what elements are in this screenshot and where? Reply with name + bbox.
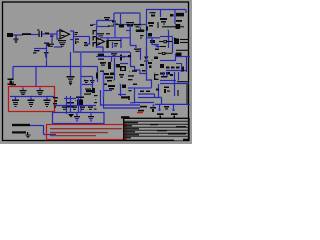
op-amp U1: [60, 30, 70, 39]
wire: [161, 98, 163, 105]
component: [155, 49, 159, 51]
component: [118, 25, 124, 28]
component: [104, 17, 110, 20]
ground: [58, 40, 66, 47]
component: [164, 106, 169, 110]
component: [75, 95, 84, 106]
component: [150, 40, 156, 43]
capacitor C7: [134, 48, 141, 52]
wire: [146, 48, 148, 74]
wire: [70, 96, 72, 112]
component: [97, 54, 104, 57]
text line: [50, 128, 122, 130]
pin column: [93, 30, 98, 47]
wire: [172, 37, 174, 54]
component: [148, 22, 154, 27]
text right: [98, 59, 104, 72]
component: [122, 85, 126, 89]
resistor G1: [12, 97, 19, 108]
wire: [43, 126, 45, 135]
transistor Q2: [176, 24, 182, 29]
component: [140, 91, 150, 93]
wire: [130, 96, 135, 103]
wire: [176, 64, 182, 73]
component: [170, 14, 174, 17]
capacitor C11: [37, 88, 44, 96]
capacitor pin: [11, 82, 17, 86]
component: [147, 33, 152, 37]
component F1: [164, 87, 170, 94]
wire: [176, 49, 189, 51]
component pins: [46, 44, 54, 47]
wire: [128, 96, 130, 100]
component: [140, 35, 144, 39]
wire: [175, 53, 177, 60]
wire rail: [104, 96, 141, 108]
highlight box B: [47, 125, 127, 140]
wire: [30, 125, 44, 127]
component: [106, 40, 109, 48]
wire net N4: [128, 87, 152, 89]
component: [160, 64, 164, 68]
component: [114, 43, 118, 47]
wire net N3: [100, 37, 130, 39]
wire: [146, 9, 186, 11]
component U3: [160, 18, 167, 25]
component: [135, 30, 145, 33]
wire: [126, 30, 131, 32]
capacitor C12: [74, 113, 80, 121]
resistor row: [166, 67, 184, 72]
component: [84, 42, 88, 46]
capacitor C4: [67, 76, 75, 86]
wire: [46, 43, 48, 67]
wire: [160, 10, 162, 18]
diode D2: [144, 57, 149, 62]
component: [100, 62, 106, 66]
capacitor C6: [111, 53, 117, 56]
component: [86, 88, 95, 93]
resistor G3: [44, 97, 51, 108]
bracket: [154, 73, 159, 81]
component: [148, 62, 152, 68]
wire: [81, 76, 93, 78]
wire: [120, 63, 128, 65]
component: [150, 12, 156, 17]
wire: [96, 21, 98, 27]
power bar P1: [12, 124, 30, 126]
wire box B1: [53, 113, 105, 124]
wire: [158, 52, 162, 54]
wire: [166, 52, 173, 54]
wire: [163, 72, 165, 77]
label bar red: [137, 112, 143, 113]
bus bar: [121, 116, 130, 118]
wire: [160, 80, 176, 82]
capacitor C8: [84, 79, 89, 84]
wire: [185, 10, 187, 14]
component: [120, 66, 126, 71]
sheet background: [0, 0, 192, 144]
wire: [146, 10, 148, 71]
resistor R1: [22, 33, 31, 35]
wire: [51, 34, 53, 43]
bus bar: [121, 96, 130, 98]
wire box: [108, 38, 121, 48]
wire: [134, 88, 136, 96]
ground: [68, 114, 74, 118]
wire: [174, 10, 176, 25]
component: [108, 85, 115, 90]
capacitor C5: [134, 24, 142, 27]
wire: [162, 26, 176, 28]
text dashes: [128, 75, 137, 91]
bracket pin: [70, 31, 74, 41]
wire: [168, 30, 170, 48]
component: [119, 74, 124, 78]
junction: [129, 70, 146, 72]
wire: [140, 27, 142, 30]
component: [128, 55, 131, 57]
label F: [75, 39, 79, 45]
capacitor C13: [88, 113, 94, 121]
wire: [152, 38, 158, 48]
wire: [159, 105, 161, 109]
wire: [113, 13, 115, 21]
component: [115, 64, 120, 68]
component: [140, 64, 144, 66]
wire: [118, 94, 126, 96]
component: [156, 89, 159, 91]
wire: [156, 45, 160, 47]
ic U4: [176, 13, 184, 17]
wire: [160, 60, 176, 62]
component: [108, 62, 111, 69]
junction: [46, 59, 47, 60]
wire: [180, 26, 184, 28]
diode D4: [171, 109, 178, 118]
component: [108, 25, 111, 26]
wire: [114, 21, 116, 38]
wire: [180, 42, 189, 44]
component: [90, 25, 96, 27]
title text right: [150, 124, 186, 135]
wire: [35, 67, 37, 87]
wire: [85, 37, 90, 45]
wire: [97, 20, 115, 22]
capacitor C2: [37, 30, 42, 38]
component: [146, 27, 148, 31]
divider chain: [53, 97, 58, 108]
wire: [139, 13, 141, 25]
title text rows: [124, 122, 139, 138]
wire: [103, 72, 105, 96]
highlight box A: [9, 87, 55, 112]
component: [154, 57, 158, 60]
wire: [186, 84, 188, 104]
label bar: [140, 106, 147, 108]
wire: [97, 67, 99, 83]
wire: [12, 67, 14, 80]
component cluster: [160, 72, 173, 78]
wire: [66, 96, 68, 114]
page border frame: [3, 2, 189, 141]
wire: [130, 46, 136, 49]
wire: [97, 26, 109, 28]
wire: [180, 39, 189, 41]
wire: [78, 96, 80, 112]
text label: [97, 33, 110, 36]
wire: [114, 72, 116, 80]
wire: [73, 40, 75, 52]
wire: [42, 33, 57, 35]
wire: [54, 46, 62, 48]
wire: [157, 22, 159, 28]
wire: [159, 41, 164, 43]
component: [111, 21, 118, 27]
text line: [50, 132, 108, 134]
wire rail: [101, 90, 141, 105]
transistor Q5: [150, 105, 156, 113]
transistor Q4: [176, 53, 182, 58]
component: [96, 73, 98, 79]
text line: [50, 135, 96, 137]
relay K1: [126, 22, 134, 27]
wire: [96, 56, 128, 58]
wire: [138, 94, 155, 98]
wire: [31, 34, 39, 36]
wire: [140, 70, 152, 88]
wire: [118, 24, 146, 26]
diode D3: [157, 109, 164, 118]
capacitor row: [62, 105, 93, 110]
wire: [34, 48, 47, 50]
wire: [120, 13, 122, 25]
wire net N2: [13, 66, 98, 68]
opamp U5: [97, 38, 105, 46]
wire: [174, 72, 176, 96]
component: [176, 20, 182, 22]
component: [164, 40, 168, 43]
title block table: [124, 118, 189, 140]
transistor Q3: [174, 38, 179, 44]
wire: [74, 36, 90, 38]
component: [162, 52, 166, 55]
wire: [70, 52, 72, 76]
wire: [173, 105, 175, 109]
wire: [158, 84, 160, 98]
wire: [80, 52, 82, 113]
wire: [138, 97, 162, 99]
wire: [166, 70, 186, 72]
wire: [160, 83, 189, 85]
wire: [177, 90, 179, 96]
wire bus: [10, 96, 54, 98]
resistor R2 label: [75, 32, 79, 35]
wire: [129, 24, 131, 46]
component: [120, 55, 125, 61]
wire: [176, 56, 190, 58]
wire: [120, 84, 122, 96]
wire: [147, 37, 160, 39]
wire net N1: [74, 51, 131, 53]
wire: [166, 72, 168, 77]
wire: [167, 41, 172, 43]
wire: [13, 34, 23, 36]
wire: [96, 26, 98, 48]
wire: [92, 77, 94, 93]
wire: [82, 84, 92, 86]
ground: [26, 132, 31, 138]
wire: [135, 102, 154, 104]
capacitor C1: [14, 35, 19, 43]
wire: [160, 46, 166, 48]
component cluster: [104, 73, 114, 86]
text dashes: [94, 95, 98, 110]
wire: [131, 52, 141, 70]
bracket pin: [57, 31, 60, 40]
wire: [114, 58, 116, 72]
wire: [97, 47, 104, 52]
wire: [111, 57, 113, 62]
wire: [56, 105, 96, 107]
power bar P2: [12, 131, 26, 133]
component: [45, 33, 54, 37]
resistor G2: [28, 97, 35, 108]
diode D1: [8, 79, 14, 86]
component: [66, 102, 74, 108]
wire: [155, 103, 190, 105]
wire: [64, 98, 76, 100]
wire: [186, 57, 188, 73]
capacitor C9: [90, 80, 95, 83]
wire: [114, 12, 140, 14]
transistor Q1: [33, 43, 50, 58]
wire: [140, 48, 142, 60]
wire: [178, 72, 180, 81]
label bar: [138, 110, 144, 112]
junction dots: [73, 12, 173, 97]
resistor hatch: [84, 89, 94, 95]
wire: [44, 134, 57, 136]
title bottom notch: [174, 139, 188, 141]
wire: [177, 81, 188, 83]
connector J1: [7, 33, 13, 37]
capacitor C10: [20, 88, 27, 96]
wire: [104, 90, 112, 92]
wire: [160, 36, 173, 38]
